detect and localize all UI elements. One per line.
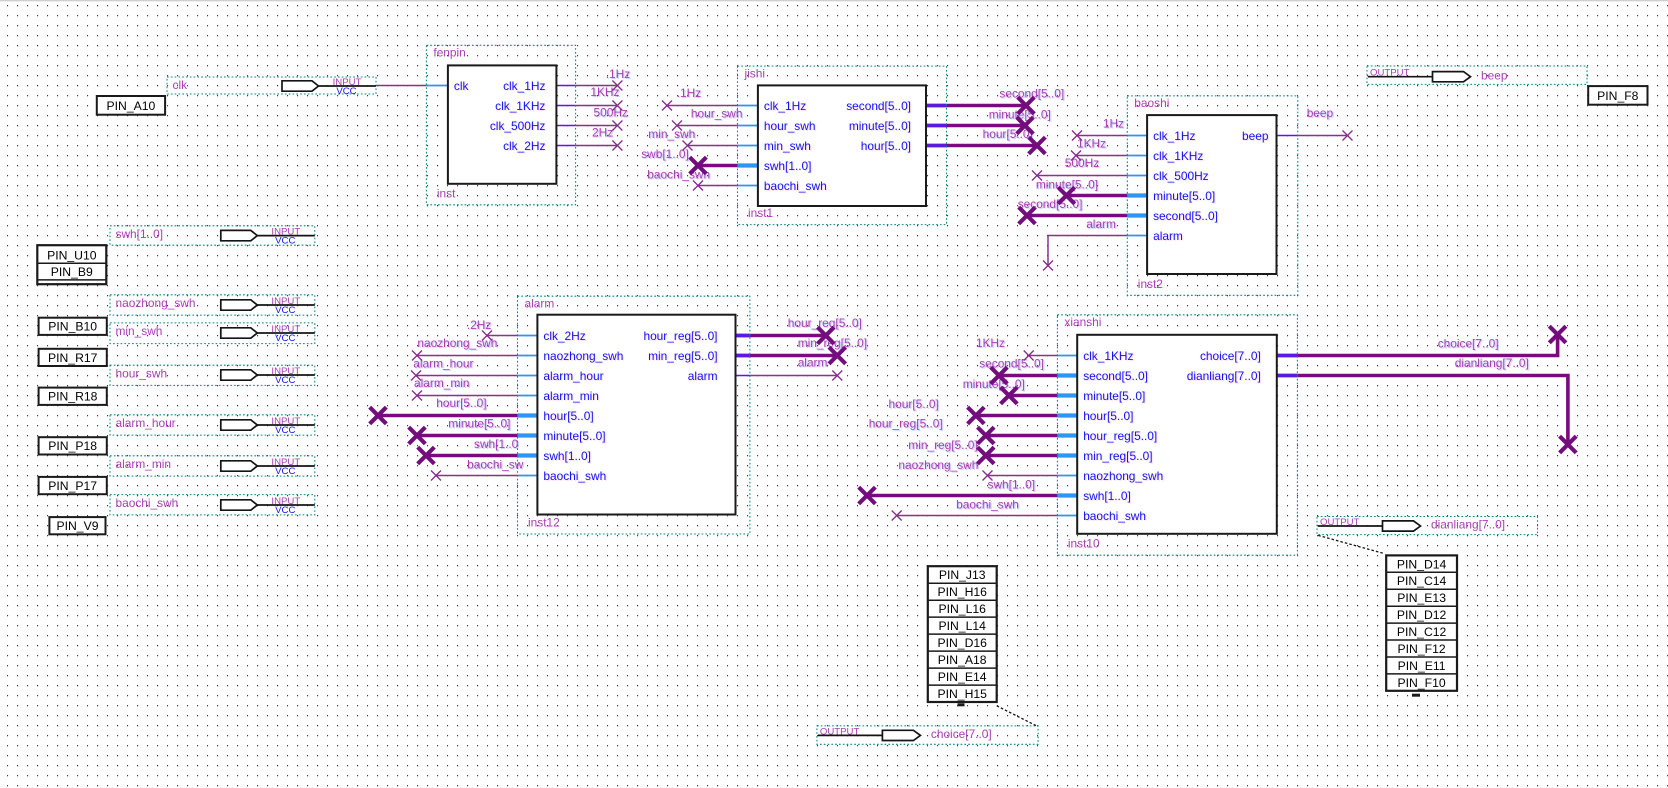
svg-text:minute[5..0]: minute[5..0]	[448, 416, 510, 430]
svg-text:second[5..0]: second[5..0]	[1153, 209, 1218, 223]
svg-text:hour_reg[5..0]: hour_reg[5..0]	[1083, 429, 1157, 443]
svg-text:PIN_R17: PIN_R17	[48, 351, 98, 365]
svg-text:PIN_L16: PIN_L16	[938, 602, 986, 616]
svg-text:.1Hz: .1Hz	[677, 86, 702, 100]
svg-text:naozhong_swh: naozhong_swh	[116, 296, 196, 310]
svg-text:baochi_swh: baochi_swh	[543, 469, 606, 483]
svg-text:PIN_R18: PIN_R18	[48, 390, 98, 404]
svg-text:hour_swh: hour_swh	[691, 107, 743, 121]
svg-text:baochi_swh: baochi_swh	[116, 496, 179, 510]
svg-text:min_reg[5..0]: min_reg[5..0]	[1083, 449, 1152, 463]
svg-text:alarm_hour: alarm_hour	[116, 416, 176, 430]
svg-text:dianliang[7..0]: dianliang[7..0]	[1455, 356, 1529, 370]
svg-text:inst10: inst10	[1068, 537, 1100, 551]
svg-text:beep: beep	[1307, 106, 1334, 120]
svg-text:PIN_D12: PIN_D12	[1397, 608, 1447, 622]
svg-text:baochi_sw: baochi_sw	[467, 458, 524, 472]
svg-text:minute[5..0]: minute[5..0]	[1083, 389, 1145, 403]
svg-text:2Hz: 2Hz	[592, 125, 613, 139]
svg-text:second[5..0]: second[5..0]	[979, 357, 1044, 371]
svg-text:PIN_L14: PIN_L14	[938, 619, 986, 633]
svg-text:hour[5..0]: hour[5..0]	[889, 397, 939, 411]
svg-text:clk_1KHz: clk_1KHz	[495, 99, 545, 113]
svg-text:alarm_min: alarm_min	[414, 376, 470, 390]
svg-text:alarm: alarm	[1086, 217, 1116, 231]
svg-text:PIN_D14: PIN_D14	[1397, 557, 1447, 571]
svg-text:fenpin: fenpin	[433, 46, 465, 60]
svg-text:hour[5..0]: hour[5..0]	[543, 409, 593, 423]
svg-text:PIN_H15: PIN_H15	[937, 687, 987, 701]
svg-text:xianshi: xianshi	[1064, 315, 1101, 329]
svg-text:naozhong_swh: naozhong_swh	[898, 458, 978, 472]
svg-text:baoshi: baoshi	[1134, 96, 1169, 110]
svg-text:minute[5..0]: minute[5..0]	[543, 429, 605, 443]
svg-text:clk_1Hz: clk_1Hz	[1153, 129, 1195, 143]
svg-text:hour_reg[5..0]: hour_reg[5..0]	[643, 329, 717, 343]
svg-text:baochi_swh: baochi_swh	[1083, 509, 1146, 523]
svg-text:500Hz: 500Hz	[1065, 156, 1099, 170]
svg-text:PIN_J13: PIN_J13	[939, 568, 986, 582]
svg-text:VCC: VCC	[275, 466, 295, 477]
svg-text:PIN_E14: PIN_E14	[938, 670, 987, 684]
svg-text:swh[1..0]: swh[1..0]	[1083, 489, 1131, 503]
svg-text:minute[5..0]: minute[5..0]	[1153, 189, 1215, 203]
svg-text:1KHz: 1KHz	[1077, 136, 1106, 150]
svg-text:clk_2Hz: clk_2Hz	[503, 139, 545, 153]
svg-text:choice[7..0]: choice[7..0]	[931, 727, 992, 741]
svg-text:hour[5..0]: hour[5..0]	[436, 396, 486, 410]
svg-text:1Hz: 1Hz	[1103, 117, 1124, 131]
svg-text:clk_1KHz: clk_1KHz	[1083, 349, 1133, 363]
svg-text:clk_2Hz: clk_2Hz	[543, 329, 585, 343]
svg-text:clk: clk	[173, 78, 188, 92]
svg-text:naozhong_swh: naozhong_swh	[543, 349, 623, 363]
svg-text:PIN_F10: PIN_F10	[1398, 676, 1446, 690]
svg-text:hour[5..0]: hour[5..0]	[1083, 409, 1133, 423]
svg-text:swh[1..0: swh[1..0	[474, 437, 519, 451]
svg-text:VCC: VCC	[275, 305, 295, 316]
svg-text:clk_500Hz: clk_500Hz	[490, 119, 546, 133]
svg-text:PIN_F8: PIN_F8	[1597, 89, 1639, 103]
svg-text:clk: clk	[454, 79, 469, 93]
svg-text:inst: inst	[437, 186, 456, 200]
svg-text:choice[7..0]: choice[7..0]	[1200, 349, 1261, 363]
svg-text:1KHz: 1KHz	[976, 336, 1005, 350]
svg-text:inst1: inst1	[748, 206, 774, 220]
svg-text:choice[7..0]: choice[7..0]	[1438, 337, 1499, 351]
svg-text:alarm: alarm	[525, 296, 555, 310]
svg-text:second[5..0]: second[5..0]	[1083, 369, 1148, 383]
svg-text:jishi: jishi	[744, 66, 765, 80]
svg-text:beep: beep	[1481, 68, 1508, 82]
svg-text:hour_swh: hour_swh	[116, 366, 168, 380]
svg-text:dianliang[7..0]: dianliang[7..0]	[1431, 518, 1505, 532]
svg-text:PIN_H16: PIN_H16	[937, 585, 987, 599]
svg-text:hour[5..0]: hour[5..0]	[983, 127, 1033, 141]
svg-text:VCC: VCC	[275, 425, 295, 436]
svg-text:PIN_P17: PIN_P17	[48, 479, 97, 493]
svg-text:min_swh: min_swh	[764, 139, 811, 153]
svg-text:OUTPUT: OUTPUT	[1320, 517, 1360, 528]
svg-text:dianliang[7..0]: dianliang[7..0]	[1187, 369, 1261, 383]
svg-text:VCC: VCC	[275, 375, 295, 386]
svg-text:alarm_hour: alarm_hour	[413, 356, 473, 370]
svg-text:baochi_swh: baochi_swh	[956, 497, 1019, 511]
svg-text:VCC: VCC	[275, 235, 295, 246]
svg-text:PIN_P18: PIN_P18	[48, 439, 97, 453]
svg-text:clk_1KHz: clk_1KHz	[1153, 149, 1203, 163]
svg-text:PIN_E11: PIN_E11	[1398, 659, 1446, 673]
svg-text:PIN_U10: PIN_U10	[47, 248, 97, 262]
svg-text:alarm: alarm	[798, 356, 828, 370]
svg-text:beep: beep	[1242, 129, 1269, 143]
svg-text:clk_1Hz: clk_1Hz	[503, 79, 545, 93]
svg-text:minute[5..0]: minute[5..0]	[849, 119, 911, 133]
svg-text:swh[1..0]: swh[1..0]	[116, 227, 164, 241]
svg-text:hour_reg[5..0]: hour_reg[5..0]	[869, 417, 943, 431]
svg-text:naozhong_swh: naozhong_swh	[1083, 469, 1163, 483]
svg-text:PIN_V9: PIN_V9	[56, 519, 98, 533]
svg-text:swh[1..0]: swh[1..0]	[543, 449, 591, 463]
svg-text:inst12: inst12	[528, 516, 560, 530]
svg-text:VCC: VCC	[275, 505, 295, 516]
svg-text:min_reg[5..0]: min_reg[5..0]	[648, 349, 717, 363]
svg-text:alarm_min: alarm_min	[543, 389, 599, 403]
svg-text:alarm: alarm	[1153, 229, 1183, 243]
svg-text:.2Hz: .2Hz	[467, 318, 492, 332]
svg-text:PIN_A18: PIN_A18	[938, 653, 987, 667]
svg-text:500Hz: 500Hz	[594, 106, 628, 120]
svg-text:OUTPUT: OUTPUT	[1370, 68, 1410, 79]
svg-text:hour_reg[5..0]: hour_reg[5..0]	[788, 316, 862, 330]
svg-text:PIN_C12: PIN_C12	[1397, 625, 1447, 639]
svg-text:min_reg[5..0]: min_reg[5..0]	[908, 438, 977, 452]
svg-text:swb[1..0]: swb[1..0]	[641, 147, 689, 161]
svg-text:VCC: VCC	[275, 333, 295, 344]
svg-text:PIN_B10: PIN_B10	[48, 320, 97, 334]
svg-text:alarm: alarm	[688, 369, 718, 383]
svg-text:PIN_A10: PIN_A10	[107, 99, 156, 113]
svg-text:second[5..0]: second[5..0]	[846, 99, 911, 113]
svg-text:.1Hz: .1Hz	[606, 67, 631, 81]
svg-text:hour[5..0]: hour[5..0]	[861, 139, 911, 153]
svg-text:PIN_F12: PIN_F12	[1398, 642, 1446, 656]
svg-text:clk_500Hz: clk_500Hz	[1153, 169, 1209, 183]
svg-text:swh[1..0]: swh[1..0]	[764, 159, 812, 173]
svg-text:baochi_swh: baochi_swh	[764, 179, 827, 193]
svg-text:alarm_hour: alarm_hour	[543, 369, 603, 383]
svg-text:minute[5..0]: minute[5..0]	[1036, 177, 1098, 191]
svg-text:clk_1Hz: clk_1Hz	[764, 99, 806, 113]
svg-text:PIN_C14: PIN_C14	[1397, 574, 1447, 588]
svg-text:swh[1..0]: swh[1..0]	[988, 478, 1036, 492]
svg-text:PIN_D16: PIN_D16	[937, 636, 987, 650]
svg-text:PIN_B9: PIN_B9	[51, 265, 93, 279]
svg-text:alarm_min: alarm_min	[116, 457, 172, 471]
svg-text:hour_swh: hour_swh	[764, 119, 816, 133]
svg-text:min_swh: min_swh	[116, 324, 163, 338]
svg-text:inst2: inst2	[1138, 277, 1164, 291]
svg-text:OUTPUT: OUTPUT	[820, 726, 860, 737]
svg-text:VCC: VCC	[336, 86, 356, 97]
svg-text:PIN_E13: PIN_E13	[1397, 591, 1446, 605]
svg-text:min_swh: min_swh	[648, 127, 695, 141]
